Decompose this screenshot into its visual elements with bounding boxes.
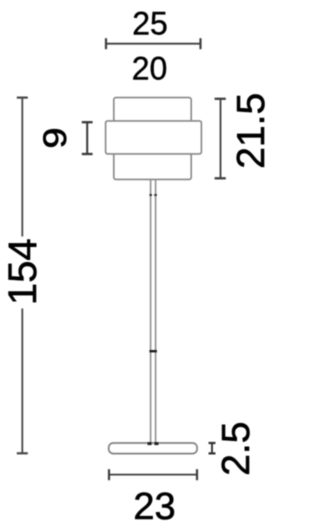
svg-text:25: 25 [132, 6, 168, 42]
svg-text:20: 20 [132, 50, 168, 86]
svg-text:9: 9 [37, 128, 73, 149]
svg-text:2.5: 2.5 [215, 422, 258, 476]
svg-text:23: 23 [133, 486, 175, 523]
svg-text:21.5: 21.5 [230, 93, 268, 169]
svg-text:154: 154 [1, 238, 45, 305]
